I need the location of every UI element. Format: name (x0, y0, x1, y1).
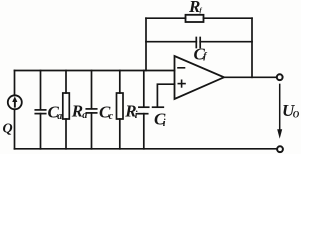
svg-text:i: i (163, 118, 166, 129)
svg-text:a: a (57, 111, 62, 122)
svg-text:c: c (109, 111, 114, 122)
svg-text:Q: Q (3, 121, 13, 136)
svg-text:a: a (82, 110, 87, 121)
svg-text:O: O (293, 110, 300, 120)
svg-text:i: i (135, 110, 138, 121)
svg-text:R: R (188, 0, 200, 16)
